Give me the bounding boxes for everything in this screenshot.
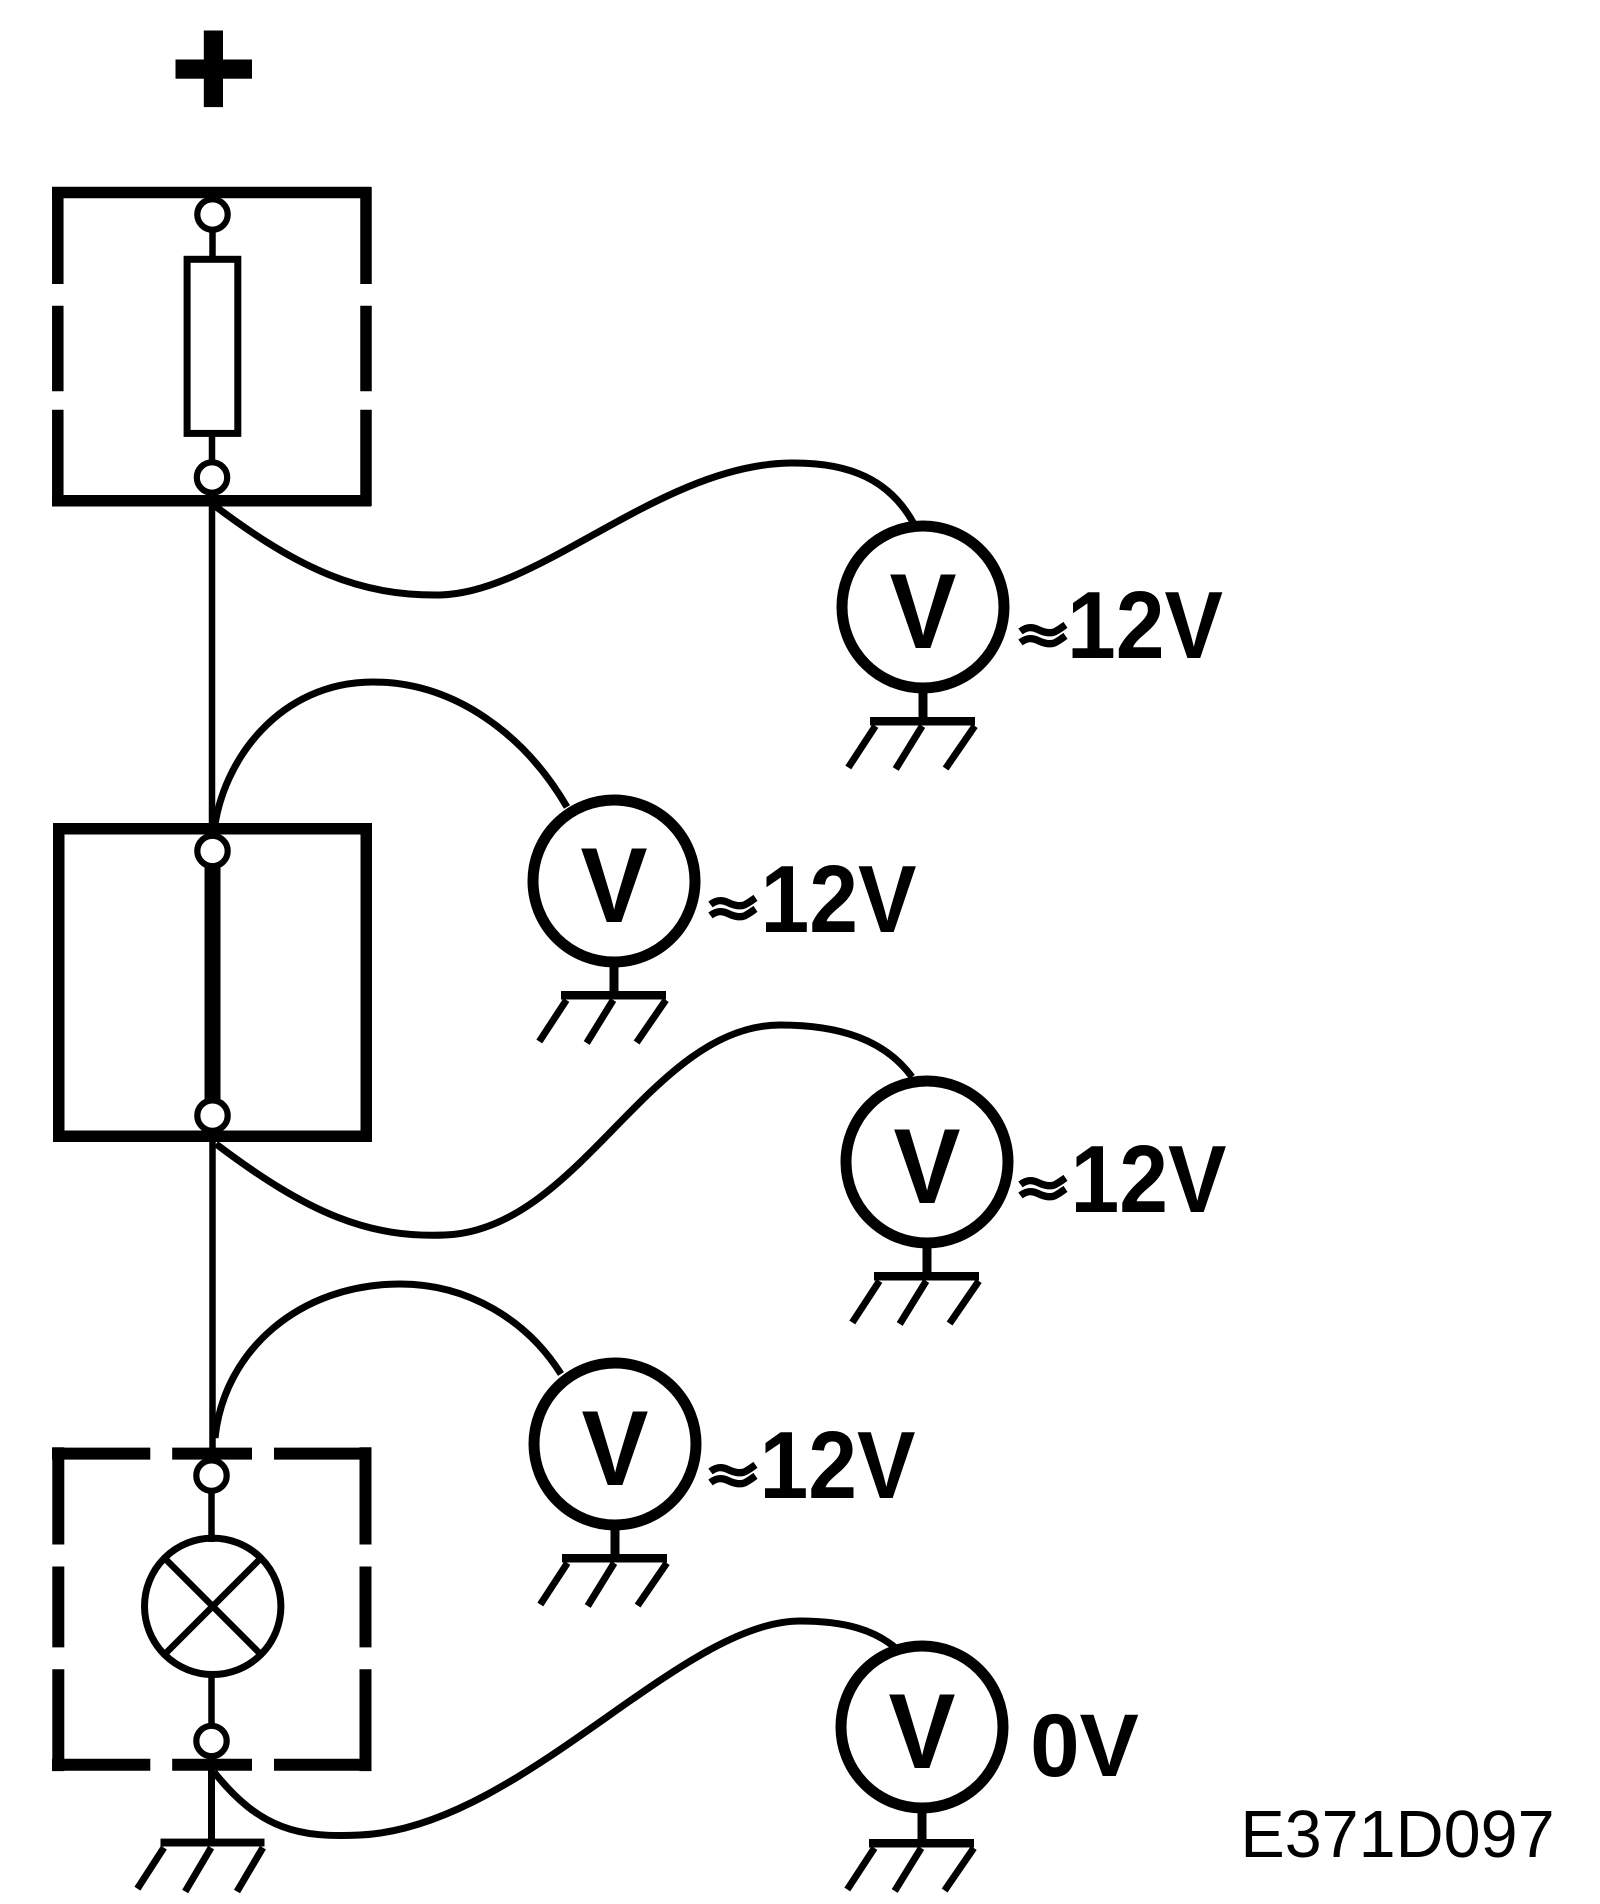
svg-text:0V: 0V (1030, 1695, 1139, 1795)
label approx 12V at V2 (711, 898, 756, 917)
closed switch contact bar (205, 864, 221, 1103)
node: lamp box output terminal (196, 1726, 226, 1756)
wire terminal to lamp (208, 1491, 215, 1543)
lamp L1 (circle with X) (145, 1538, 281, 1674)
svg-text:E371D097: E371D097 (1240, 1798, 1554, 1872)
svg-text:V: V (894, 1106, 961, 1226)
node: switch box output terminal (197, 1100, 227, 1130)
wire: probe lead to voltmeter V3 (216, 1025, 912, 1235)
node: lamp box input terminal (196, 1460, 226, 1490)
svg-text:V: V (581, 825, 648, 945)
svg-text:12V: 12V (1067, 572, 1223, 679)
voltmeter V1 (842, 526, 1004, 769)
fuse F1 (187, 259, 238, 433)
ground (circuit return) (137, 1839, 264, 1892)
label approx 12V at V1 (1021, 625, 1066, 644)
svg-text:12V: 12V (761, 846, 917, 953)
voltmeter V3 (846, 1081, 1008, 1324)
svg-text:12V: 12V (1071, 1126, 1227, 1233)
wire: probe lead to voltmeter V4 (215, 1284, 561, 1438)
wire fuse to terminal (209, 434, 216, 464)
node: switch box input terminal (197, 836, 227, 866)
wire lamp to terminal (208, 1672, 215, 1727)
wire switch box to lamp box (209, 1131, 216, 1461)
switch box (solid enclosure) (59, 829, 367, 1137)
voltmeter V4 (534, 1363, 696, 1606)
wire: probe lead to voltmeter V5 (214, 1621, 897, 1836)
label approx 12V at V4 (711, 1465, 756, 1484)
svg-text:V: V (582, 1388, 649, 1508)
label approx 12V at V3 (1021, 1178, 1066, 1197)
wire terminal to fuse (209, 230, 216, 261)
lamp box (dashed enclosure) (52, 1447, 371, 1771)
wire lamp box to ground (208, 1756, 215, 1841)
svg-text:V: V (889, 1671, 956, 1791)
svg-text:V: V (890, 551, 957, 671)
wire: probe lead to voltmeter V2 (214, 682, 567, 832)
node: fuse box input terminal (197, 199, 227, 229)
wire: probe lead to voltmeter V1 (215, 463, 914, 595)
wire fuse box to switch box (209, 493, 216, 837)
battery plus terminal symbol (176, 31, 253, 108)
fuse box (dashed enclosure) (52, 187, 371, 506)
voltmeter V2 (533, 800, 695, 1043)
node: fuse box output terminal (197, 462, 227, 492)
voltmeter V5 (841, 1646, 1003, 1891)
svg-text:12V: 12V (760, 1412, 916, 1519)
